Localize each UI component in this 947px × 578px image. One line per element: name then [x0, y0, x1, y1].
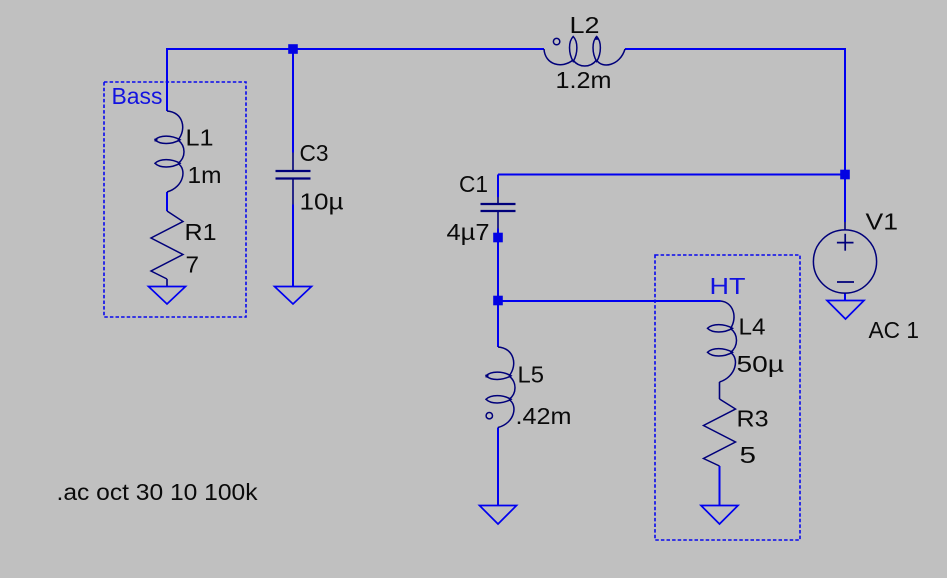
dashed group box HT: [655, 255, 800, 540]
wire C3 top: [292, 49, 294, 153]
phase dot of L5: [486, 413, 492, 419]
node junction below C1: [493, 233, 503, 243]
svg-text:L1: L1: [186, 125, 214, 151]
wire R3 to ground: [719, 466, 721, 506]
node junction at L5/L4 tap: [493, 296, 503, 306]
svg-text:V1: V1: [866, 209, 899, 235]
svg-text:.42m: .42m: [516, 403, 572, 429]
svg-text:.ac oct 30 10 100k: .ac oct 30 10 100k: [57, 479, 259, 505]
ground below R3: [701, 506, 738, 525]
inductor L5: [486, 347, 516, 428]
ground below C3: [275, 287, 312, 305]
capacitor C3: [276, 171, 311, 179]
capacitor C1: [481, 204, 516, 211]
voltage source V1: [813, 230, 876, 293]
ground below R1: [149, 287, 186, 305]
phase dot of L2: [553, 38, 559, 44]
inductor L4: [708, 301, 737, 382]
node junction at C3 tap: [288, 44, 298, 54]
ground below V1: [827, 301, 864, 320]
dashed group box Bass: [104, 82, 246, 317]
wire C1 top: [497, 175, 499, 198]
svg-text:L5: L5: [518, 362, 545, 388]
ground below L5: [480, 506, 517, 525]
svg-text:50µ: 50µ: [737, 351, 785, 377]
wire L5 to ground: [497, 428, 499, 507]
svg-text:HT: HT: [710, 273, 746, 299]
svg-text:C1: C1: [459, 171, 488, 197]
inductor L1: [155, 111, 185, 192]
lead C3 bottom plate: [292, 179, 294, 205]
svg-text:R3: R3: [737, 406, 769, 432]
resistor R1: [151, 211, 183, 279]
svg-text:Bass: Bass: [112, 83, 163, 109]
wire C3 bottom to ground: [292, 205, 294, 288]
svg-text:1m: 1m: [188, 162, 222, 188]
inductor L2: [544, 37, 625, 67]
lead C1 bottom plate: [497, 211, 499, 229]
lead R1 to ground: [166, 279, 168, 287]
svg-text:L2: L2: [570, 12, 600, 38]
lead C3 top plate: [292, 153, 294, 172]
wire top-left horizontal: [167, 49, 544, 111]
lead V1 top pin: [844, 222, 846, 231]
node junction at V1 top: [840, 170, 850, 180]
svg-text:R1: R1: [185, 219, 217, 245]
svg-text:5: 5: [740, 442, 757, 468]
wire V1 to ground: [844, 294, 846, 302]
svg-text:L4: L4: [739, 314, 766, 340]
wire top-right horizontal and down to V1: [625, 49, 845, 222]
lead C1 top plate: [497, 197, 499, 204]
wire C1 horizontal to node at V1: [498, 174, 845, 176]
svg-text:10µ: 10µ: [300, 189, 344, 215]
svg-text:1.2m: 1.2m: [556, 67, 612, 93]
svg-text:7: 7: [186, 252, 200, 278]
wire node to L4: [498, 300, 721, 302]
svg-text:4µ7: 4µ7: [447, 219, 490, 245]
lead L4 to R3: [719, 382, 721, 399]
svg-text:AC 1: AC 1: [869, 317, 920, 343]
resistor R3: [704, 399, 736, 466]
wire L1 to R1: [166, 192, 168, 211]
wire C1 bottom to L5: [497, 229, 499, 348]
svg-text:C3: C3: [300, 140, 329, 166]
